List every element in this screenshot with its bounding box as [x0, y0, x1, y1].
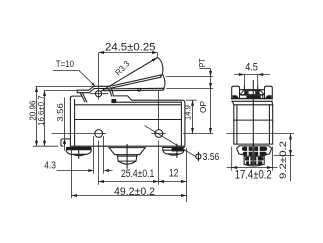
- switch body outline: [70, 96, 184, 146]
- bracket left ear: [232, 86, 240, 99]
- dimension 25.4±0.1: [99, 168, 159, 183]
- extension line screw bottom right: [274, 155, 294, 157]
- right mounting hole: [151, 91, 166, 138]
- side terminal screw S2: [244, 156, 264, 166]
- dimension 14.9: [183, 100, 194, 133]
- svg-text:25.4±0.1: 25.4±0.1: [121, 168, 154, 180]
- extension line tab left down: [71, 148, 73, 198]
- rivet on lever leg: [138, 88, 141, 91]
- svg-text:12: 12: [169, 168, 179, 180]
- dimension 16.6±0.7 left: [36, 91, 46, 147]
- extension line right hole down: [158, 141, 160, 185]
- side body mid line: [234, 119, 273, 121]
- svg-text:9.2±0.2: 9.2±0.2: [278, 141, 288, 179]
- side body outline: [233, 101, 273, 144]
- body internal mid line: [75, 119, 182, 121]
- lever pivot pin: [90, 82, 109, 100]
- bracket cell row: [240, 91, 264, 95]
- dimension 49.2±0.2: [72, 186, 187, 198]
- dimension 17.4±0.2 bottom: [227, 147, 278, 182]
- dimension 3.56 left: [55, 98, 66, 151]
- bracket right ear: [265, 86, 273, 99]
- bracket base bar: [232, 99, 273, 102]
- left hole centerline extension: [52, 133, 92, 135]
- svg-text:49.2±0.2: 49.2±0.2: [114, 186, 155, 198]
- dimension 20.96 left: [27, 87, 38, 147]
- lever bottom leg: [103, 88, 164, 90]
- dimension PT vertical: [209, 69, 212, 134]
- dimension 4.5 top: [234, 61, 270, 85]
- lever tip curl R3.3: [158, 57, 163, 75]
- svg-text:T=10: T=10: [56, 59, 74, 70]
- svg-text:17.4±0.2: 17.4±0.2: [235, 167, 272, 181]
- svg-text:4.5: 4.5: [245, 61, 258, 73]
- label PT: [198, 58, 211, 68]
- extension line lever tip level: [166, 76, 213, 78]
- lever blade pair: [112, 75, 160, 86]
- extension line top plate left: [36, 86, 94, 88]
- dimension 9.2±0.2 right: [278, 134, 292, 182]
- svg-text:24.5±0.25: 24.5±0.25: [105, 42, 156, 54]
- lever blade edge-on: [244, 86, 257, 91]
- hat wall foot: [111, 99, 116, 103]
- terminal screw T3: [163, 144, 185, 157]
- side view center line: [252, 81, 254, 164]
- terminal screw T2: [109, 145, 145, 169]
- svg-text:4.3: 4.3: [44, 160, 56, 171]
- dimension 4.3 bottom left: [44, 160, 112, 172]
- label T=10 with leader: [53, 59, 96, 86]
- extension line body top level right: [166, 88, 213, 90]
- svg-text:OP: OP: [199, 101, 208, 113]
- dimension 12: [159, 168, 187, 183]
- side terminal screw washer S1: [237, 146, 272, 156]
- body internal plate line: [75, 104, 180, 106]
- svg-text:PT: PT: [198, 58, 207, 67]
- body inner top line: [116, 101, 182, 103]
- extension line left hole down: [98, 141, 100, 185]
- extension lines 4.3: [94, 136, 104, 174]
- terminal screw T1: [66, 146, 92, 158]
- hat left wall: [80, 93, 87, 102]
- dimension 24.5±0.25 top: [99, 42, 158, 82]
- extension line body bottom left: [33, 145, 58, 147]
- left mounting hole: [92, 130, 107, 138]
- plunger housing hat outer: [77, 86, 113, 96]
- bracket lower plate: [241, 95, 263, 98]
- svg-text:3.56: 3.56: [55, 103, 65, 122]
- lever blade top edge: [101, 57, 158, 91]
- extension line hat flange left: [44, 90, 77, 92]
- bracket corner blocks: [232, 95, 239, 98]
- extension line hole centerline right: [183, 133, 213, 135]
- plunger housing hat inner: [78, 89, 111, 96]
- bracket hinge plate: [240, 89, 265, 91]
- svg-text:14.9: 14.9: [183, 105, 192, 120]
- extension line body top right for 14.9: [186, 99, 197, 101]
- side screw axis line: [252, 145, 254, 164]
- leader and label φ3.56: [145, 126, 220, 163]
- label R3.3 with leader: [113, 58, 157, 78]
- svg-text:3.56: 3.56: [203, 152, 220, 163]
- extension line body right down: [186, 148, 188, 202]
- mounting hole centerline side view: [226, 133, 294, 135]
- left mounting tab: [61, 139, 71, 146]
